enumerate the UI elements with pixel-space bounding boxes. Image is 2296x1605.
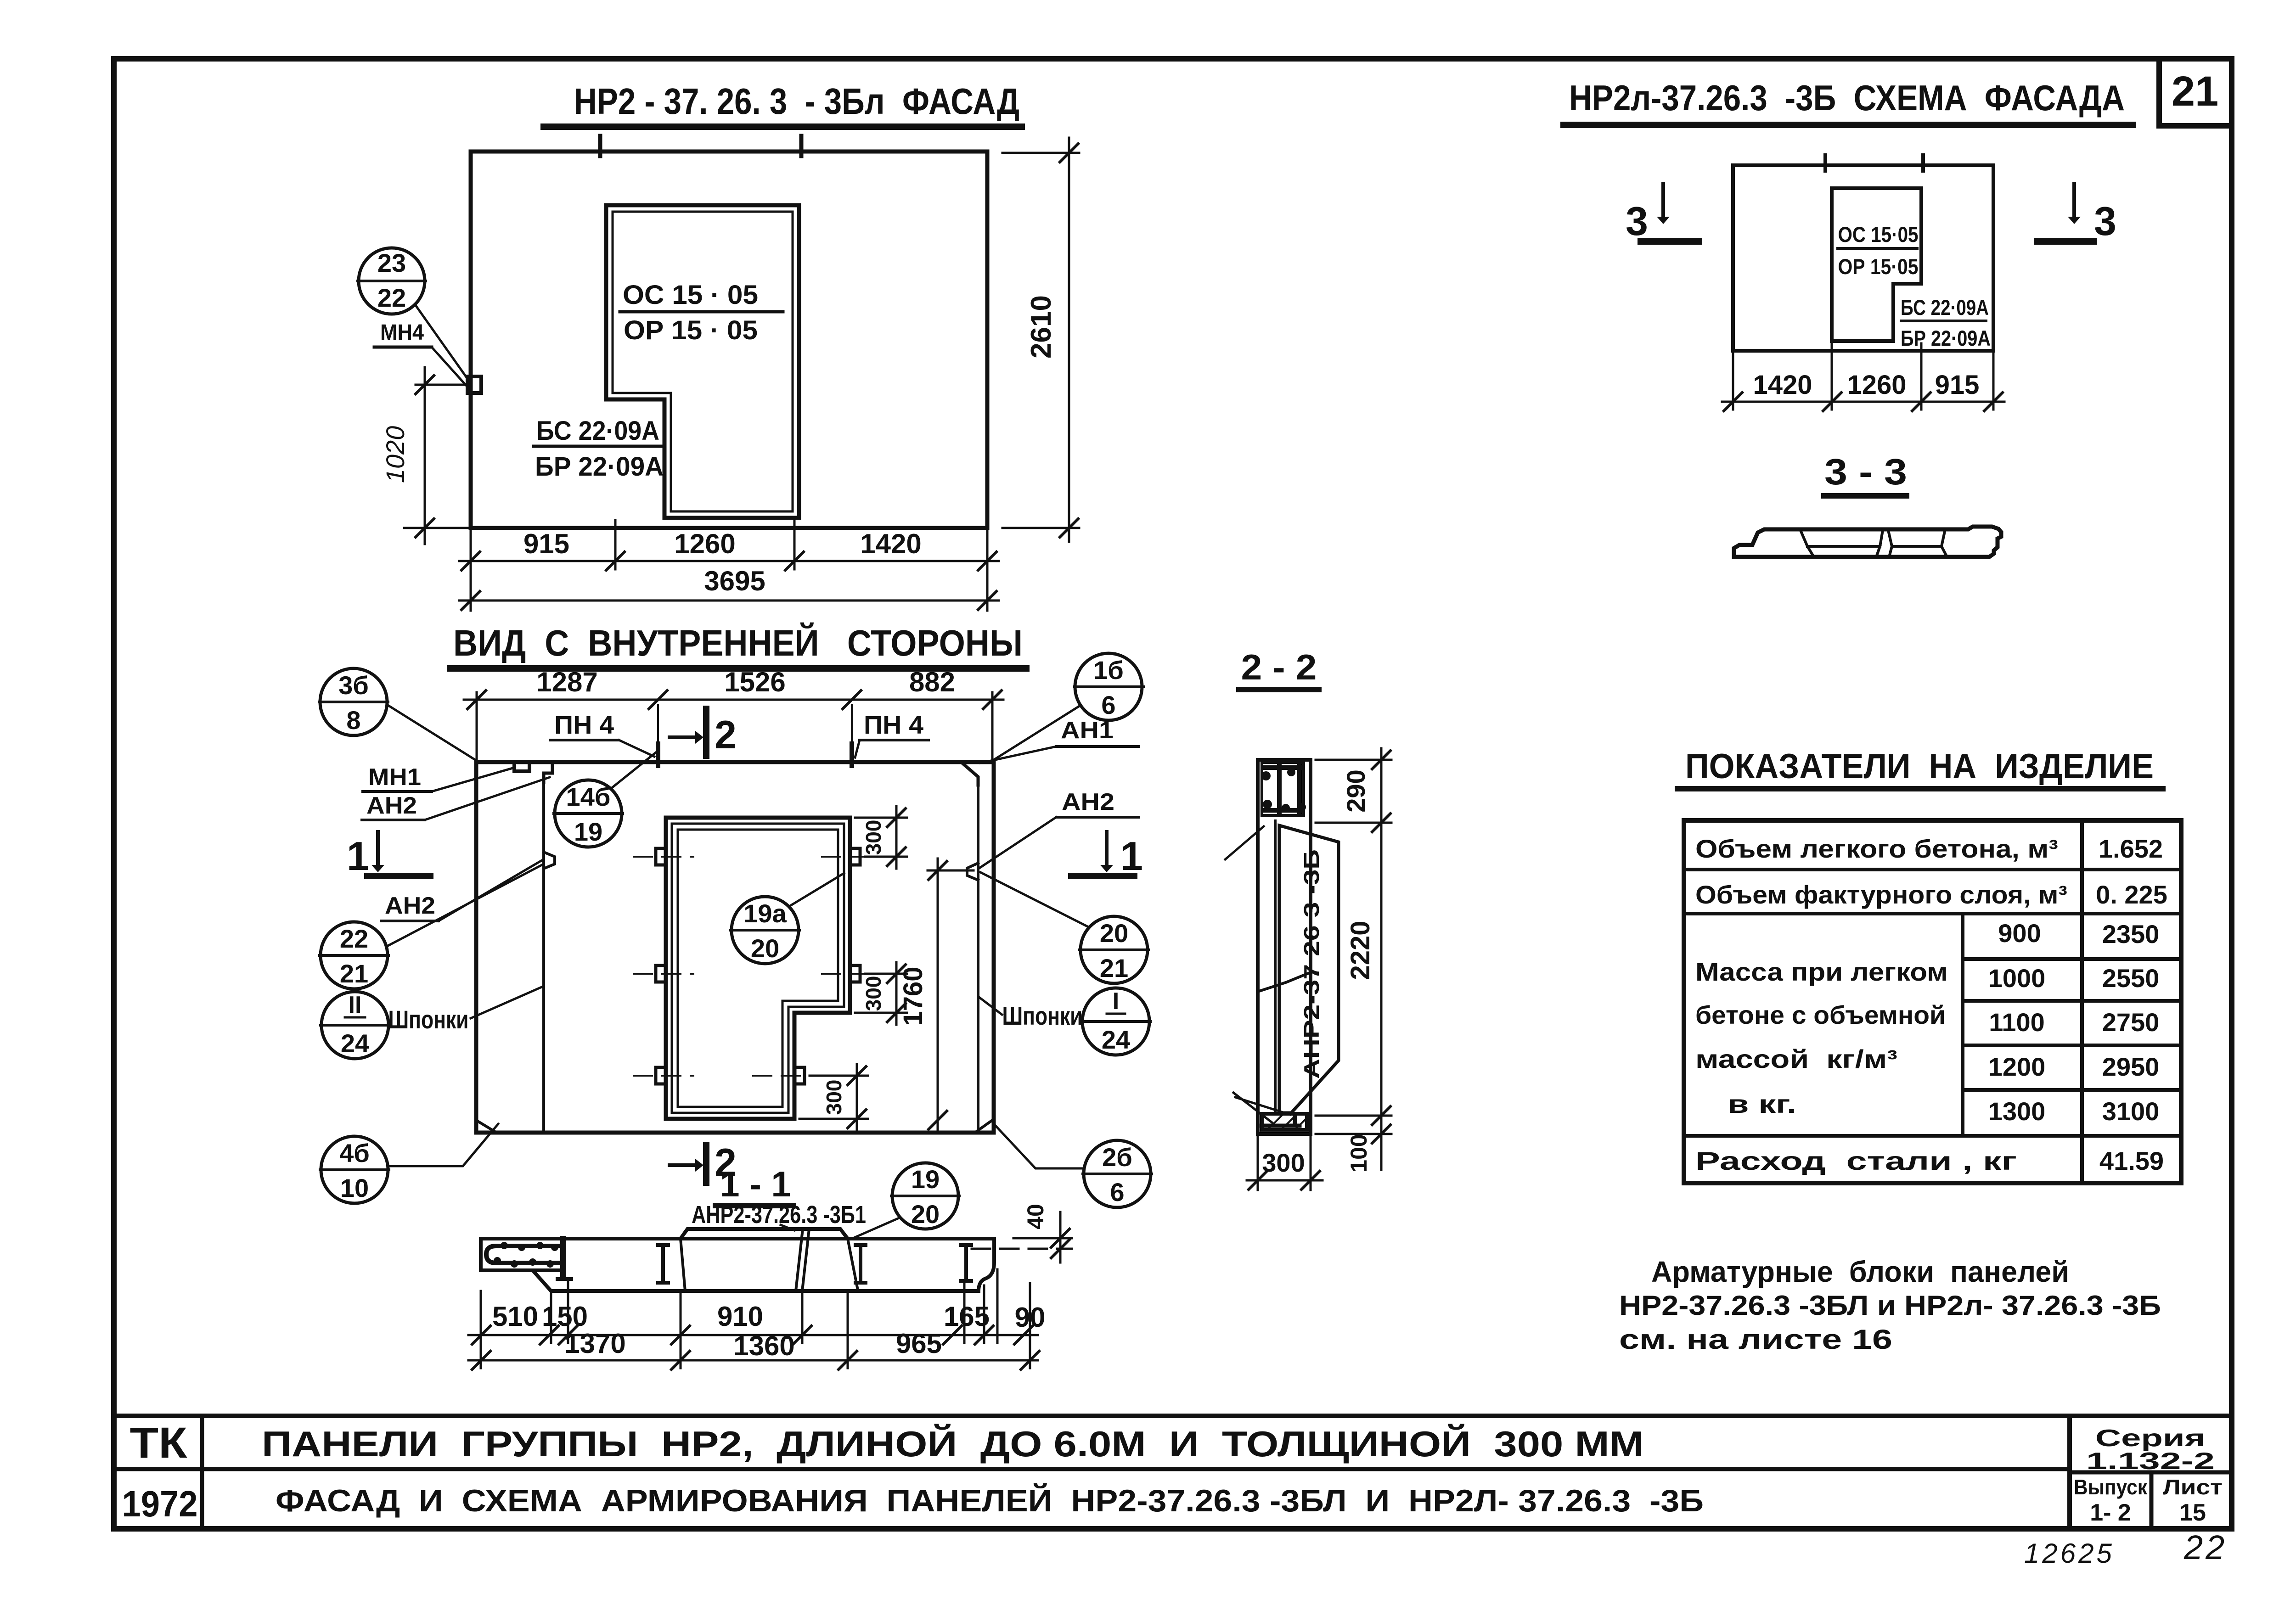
svg-text:90: 90 [1015, 1302, 1046, 1333]
section mark 2 bottom [670, 1141, 737, 1185]
facade panel outline [471, 152, 987, 528]
rebar blobs [1261, 768, 1306, 812]
dim 2610 tick top [1060, 144, 1078, 162]
leader 19a/20 to opening edge [789, 873, 844, 906]
strip outer outline [1258, 760, 1311, 1134]
schema fraction line BS/BR [1901, 320, 1986, 322]
svg-text:АНР2-37 26 3 -3Б: АНР2-37 26 3 -3Б [1300, 849, 1323, 1079]
3-3 profile key slants [1800, 529, 1947, 557]
dim 300 bottom line [856, 1064, 858, 1130]
svg-text:I: I [1113, 988, 1119, 1015]
dim 300 top ticks [887, 808, 906, 866]
svg-text:3: 3 [1626, 198, 1648, 244]
svg-text:Шпонки: Шпонки [1002, 1001, 1083, 1030]
svg-text:3 - 3: 3 - 3 [1824, 451, 1907, 492]
svg-text:ПН 4: ПН 4 [554, 710, 614, 739]
I-connector 4 [961, 1245, 971, 1281]
svg-text:0. 225: 0. 225 [2096, 880, 2167, 909]
svg-text:6: 6 [1101, 690, 1115, 719]
loop top bar [1264, 765, 1302, 770]
bottom dim extensions [1258, 1136, 1311, 1190]
svg-text:2 - 2: 2 - 2 [1241, 647, 1317, 687]
fraction line OS/OP [620, 310, 783, 314]
leader 2b/6 to bottom-right bevel [996, 1126, 1084, 1168]
svg-text:900: 900 [1998, 919, 2041, 948]
panel outline [476, 762, 994, 1133]
svg-text:19а: 19а [743, 899, 787, 928]
dashed centerline top [634, 856, 872, 858]
left end rib box [481, 1239, 564, 1270]
callout circle 1b/6 [1075, 653, 1143, 720]
opening tab right top [850, 848, 860, 865]
svg-text:АН2: АН2 [366, 792, 417, 819]
dashed centerline bottom [634, 1075, 827, 1077]
dim 2610 line [1068, 138, 1070, 542]
leader 19/20 to hump [855, 1218, 900, 1237]
table title underline [1677, 786, 2163, 791]
dim 2610 extension bottom [1002, 527, 1079, 529]
schema dim extensions [1733, 343, 1993, 410]
AN1 underline [1056, 745, 1139, 748]
svg-text:АН2: АН2 [1062, 789, 1114, 815]
schema opening outline [1832, 188, 1921, 341]
opening outer outline [666, 818, 850, 1119]
leader cage to 18b circle [1235, 1097, 1290, 1115]
svg-text:22: 22 [377, 283, 406, 312]
svg-text:ТК: ТК [130, 1419, 188, 1467]
right dim ticks [1372, 751, 1390, 1143]
rebar bar 1 in top box [1277, 764, 1282, 814]
I-connector 2 [658, 1245, 668, 1283]
svg-text:1260: 1260 [674, 528, 735, 559]
svg-text:БР 22·09А: БР 22·09А [1901, 326, 1991, 350]
bottom rebar angle [1262, 1116, 1300, 1126]
leader 3b/8 to panel corner [387, 705, 477, 761]
svg-text:1: 1 [347, 833, 369, 879]
svg-text:3: 3 [2094, 198, 2116, 244]
svg-text:Шпонки: Шпонки [388, 1005, 469, 1034]
svg-text:12625: 12625 [2024, 1538, 2115, 1569]
opening tab right mid [850, 965, 860, 982]
svg-text:НР2л-37.26.3 -3Б СХЕМА ФАСА: НР2л-37.26.3 -3Б СХЕМА ФАСАДА [1569, 78, 2125, 118]
svg-text:4б: 4б [339, 1139, 370, 1167]
svg-text:300: 300 [861, 976, 885, 1011]
extension at 1855 [851, 705, 853, 744]
body break line [1258, 972, 1311, 992]
vypusk/list divider [2150, 1472, 2154, 1529]
hump joint lines [796, 1229, 809, 1291]
leader shponki left to rib [471, 986, 544, 1018]
svg-text:2б: 2б [1102, 1143, 1132, 1172]
svg-text:21: 21 [340, 959, 368, 988]
3-3 profile outline [1734, 527, 2001, 557]
dim 1020 tick top [416, 376, 434, 394]
svg-text:10: 10 [340, 1173, 369, 1202]
svg-text:ОР 15·05: ОР 15·05 [1838, 254, 1919, 279]
dim 40: dashed line [1013, 1237, 1072, 1240]
leader ANR2 to hump [781, 1225, 794, 1230]
dim 300 top: extensions [855, 818, 907, 857]
svg-text:19: 19 [574, 817, 602, 846]
key notch left [544, 852, 555, 869]
svg-text:882: 882 [909, 667, 955, 697]
inside view title underline [450, 665, 1026, 672]
svg-text:6: 6 [1110, 1178, 1124, 1207]
svg-text:см. на листе 16: см. на листе 16 [1619, 1324, 1892, 1355]
table outer frame [1684, 820, 2181, 1183]
slab right end profile [979, 1239, 994, 1291]
svg-text:300: 300 [1262, 1148, 1305, 1177]
svg-text:1260: 1260 [1847, 370, 1906, 400]
svg-text:2350: 2350 [2102, 920, 2160, 948]
svg-text:100: 100 [1346, 1134, 1372, 1172]
dim 300 mid ticks [887, 965, 906, 1022]
svg-text:15: 15 [2179, 1499, 2206, 1526]
I-bar at rib box edge [560, 1239, 566, 1276]
svg-text:3100: 3100 [2102, 1097, 2160, 1126]
svg-text:БР 22·09А: БР 22·09А [535, 452, 664, 482]
dim 1760 extension top [928, 870, 974, 872]
schema fraction line OS/OP [1838, 247, 1917, 250]
callout circle 4b/10 [320, 1136, 389, 1203]
3-3 profile mid line right [1892, 545, 1941, 548]
svg-text:1.652: 1.652 [2099, 834, 2163, 863]
dim 300 bottom ticks [848, 1066, 866, 1128]
svg-text:1200: 1200 [1988, 1052, 2046, 1081]
svg-text:1420: 1420 [1753, 370, 1812, 400]
callout circle 22/21 [320, 922, 388, 989]
dashed centerline mid [634, 973, 872, 975]
PN4 right underline [860, 739, 929, 741]
top dim extension left [476, 692, 478, 762]
seriya box left edge [2067, 1416, 2072, 1529]
leader 1b/6 to panel corner [992, 706, 1080, 761]
PN4 right tick on panel edge [850, 744, 854, 766]
3-3 profile mid line left [1807, 545, 1880, 548]
svg-text:АН1: АН1 [1061, 717, 1114, 744]
section mark 2 top [670, 709, 737, 757]
svg-text:1- 2: 1- 2 [2090, 1499, 2131, 1526]
rebar bar 2 in top box [1297, 764, 1302, 814]
svg-text:2950: 2950 [2102, 1052, 2160, 1081]
dim line2 ticks [472, 1351, 1039, 1369]
section mark 1 left [347, 832, 430, 879]
left rib rebar dots [494, 1242, 558, 1268]
svg-text:ОР 15 · 05: ОР 15 · 05 [624, 315, 758, 345]
opening tab left bottom [656, 1067, 666, 1084]
extension at 1433 [657, 705, 659, 744]
dim line1 ticks [472, 1326, 1033, 1344]
svg-text:915: 915 [523, 528, 569, 559]
svg-text:массой кг/м³: массой кг/м³ [1695, 1044, 1897, 1073]
schema lifting tick right [1921, 155, 1925, 171]
slab bottom profile [481, 1239, 979, 1291]
inner rib line right [977, 785, 979, 1133]
rebar cage outline [1279, 825, 1339, 1113]
dim line1 ticks [461, 552, 996, 570]
window opening inner line [613, 212, 793, 511]
callout circle 3b/8 [319, 668, 388, 735]
svg-text:БС 22·09А: БС 22·09А [536, 416, 659, 446]
sheet number box 21 [2159, 59, 2232, 126]
PN4 right leader [855, 740, 860, 758]
callout circle 23/22 [358, 248, 426, 314]
dim 300 mid: extensions [855, 974, 907, 1013]
svg-text:20: 20 [751, 934, 779, 963]
svg-text:II: II [349, 992, 362, 1018]
svg-text:1760: 1760 [898, 966, 928, 1026]
svg-text:290: 290 [1341, 769, 1370, 812]
MN4 anchor plate on left edge [467, 376, 481, 393]
leader from MN4 to anchor [432, 347, 468, 388]
svg-text:ВИД С ВНУТРЕННЕЙ СТОРОНЫ: ВИД С ВНУТРЕННЕЙ СТОРОНЫ [453, 622, 1023, 663]
1-1 underline [715, 1203, 793, 1208]
svg-text:3695: 3695 [704, 566, 765, 596]
title block left column divider [200, 1416, 204, 1529]
MN4 underline [374, 346, 432, 349]
svg-text:40: 40 [1023, 1204, 1048, 1229]
svg-text:2750: 2750 [2102, 1008, 2160, 1037]
svg-text:915: 915 [1935, 370, 1980, 400]
title block top line [114, 1414, 2232, 1418]
svg-text:Лист: Лист [2163, 1475, 2223, 1499]
svg-text:19: 19 [911, 1165, 940, 1194]
AN2 top-left leader [425, 777, 550, 820]
opening tab left top [656, 848, 666, 865]
schema lifting tick left [1823, 155, 1827, 171]
svg-text:2610: 2610 [1025, 295, 1057, 359]
dim 300 top line [895, 806, 898, 869]
svg-text:Расход стали , кг: Расход стали , кг [1695, 1146, 2017, 1175]
dim line2 ticks [461, 591, 996, 610]
svg-text:Объем фактурного слоя, м³: Объем фактурного слоя, м³ [1695, 880, 2067, 909]
2-2 underline [1239, 687, 1319, 692]
dim 1760 ticks [929, 861, 947, 1129]
dim 1020 tick bottom [416, 519, 434, 537]
fraction line BS/BR [534, 445, 661, 448]
dim 1020 extension top [416, 384, 465, 386]
svg-text:1000: 1000 [1988, 964, 2046, 993]
bottom hatch lines [1267, 1114, 1307, 1130]
dim 290/2220/100 extensions [1316, 760, 1391, 1134]
AN2 right underline [1056, 816, 1139, 819]
svg-text:510: 510 [492, 1301, 538, 1332]
svg-text:Объем легкого бетона, м³: Объем легкого бетона, м³ [1695, 834, 2058, 863]
lifting mark tick left [598, 136, 602, 156]
svg-text:АН2: АН2 [385, 892, 435, 919]
svg-text:300: 300 [861, 820, 885, 855]
AN1 leader [980, 746, 1056, 763]
PN4 left underline [550, 739, 619, 741]
table mass sub-column divider [1961, 914, 1964, 1136]
svg-text:Масса при легком: Масса при легком [1695, 957, 1948, 986]
opening inner line 2 [678, 830, 838, 1107]
dim 40 ticks [1051, 1229, 1069, 1258]
svg-text:ОС 15 · 05: ОС 15 · 05 [623, 280, 758, 310]
svg-text:ПАНЕЛИ ГРУППЫ НР2, ДЛИНОЙ: ПАНЕЛИ ГРУППЫ НР2, ДЛИНОЙ ДО 6.0М И ТОЛЩ… [262, 1424, 1644, 1464]
AN2 right leader [980, 817, 1056, 868]
svg-text:1420: 1420 [860, 528, 921, 559]
AN2 top-left underline [362, 819, 425, 821]
table row line 2 [1684, 912, 2181, 915]
bottom dim line 2 [459, 600, 999, 602]
window opening outer outline [606, 205, 799, 518]
svg-text:20: 20 [1100, 919, 1128, 948]
I-connector 3 [855, 1245, 866, 1283]
svg-text:1972: 1972 [122, 1483, 198, 1524]
callout circle 14b/19 [554, 780, 623, 847]
bottom-right corner bevel [976, 1120, 992, 1132]
callout circle 19/20 [891, 1163, 959, 1229]
hump left side [681, 1239, 685, 1291]
svg-text:1: 1 [1120, 833, 1143, 879]
section mark 3 right [2037, 184, 2116, 244]
svg-text:ФАСАД И СХЕМА АРМИРОВАНИЯ: ФАСАД И СХЕМА АРМИРОВАНИЯ ПАНЕЛЕЙ НР2-37… [276, 1483, 1704, 1518]
section mark 1 right [1071, 832, 1143, 879]
svg-text:8: 8 [346, 706, 360, 735]
dim 2610 extension top [1002, 152, 1079, 154]
schema dim line [1722, 401, 2004, 403]
svg-text:ОС 15·05: ОС 15·05 [1838, 222, 1919, 247]
leader from circle 23/22 to anchor [416, 305, 470, 382]
opening tab step bottom [794, 1067, 805, 1084]
callout circle 20/21 [1080, 916, 1148, 983]
svg-text:22: 22 [2183, 1528, 2227, 1566]
svg-text:бетоне с объемной: бетоне с объемной [1695, 1000, 1946, 1029]
lifting mark tick right [799, 136, 804, 156]
MN1 leader [432, 768, 514, 791]
leader 16/20 to strip [1225, 826, 1264, 859]
bottom dim line 1 [459, 560, 999, 562]
svg-text:НР2-37.26.3 -3БЛ и НР2л- 37.26: НР2-37.26.3 -3БЛ и НР2л- 37.26.3 -3Б [1619, 1290, 2161, 1321]
AN2 left underline [381, 920, 439, 922]
dim 1020 line [424, 367, 426, 544]
key notch right [967, 863, 978, 880]
svg-text:1020: 1020 [381, 426, 410, 483]
slab top edge [481, 1237, 994, 1240]
svg-text:24: 24 [341, 1029, 369, 1058]
svg-text:1100: 1100 [1989, 1008, 2045, 1037]
mass sub-row lines [1963, 959, 2181, 1090]
MN1 anchor plate top-left [514, 762, 529, 771]
1-1 dim line 1 [468, 1334, 1038, 1336]
PN4 left leader [619, 740, 654, 757]
top dim ticks [467, 690, 1002, 709]
1-1 dim line 2 [468, 1359, 1038, 1362]
svg-text:965: 965 [896, 1328, 942, 1359]
bottom-left corner bevel [478, 1121, 495, 1132]
svg-text:МН4: МН4 [380, 320, 424, 345]
top box rebar loop outline [1262, 763, 1304, 815]
inner rib line left [542, 782, 545, 1133]
svg-text:21: 21 [1100, 954, 1128, 982]
leader shponki right to rib [979, 997, 1002, 1015]
AN2 left leader [439, 860, 542, 921]
facade title underline [544, 123, 1022, 130]
opening inner line 1 [672, 824, 844, 1113]
callout circle 2b/6 [1083, 1140, 1152, 1207]
svg-text:в кг.: в кг. [1728, 1089, 1796, 1118]
leader 14b/19 to PN4 tick [611, 751, 658, 789]
svg-text:41.59: 41.59 [2099, 1146, 2164, 1175]
loop bottom bar [1264, 808, 1302, 813]
top dim extension right [991, 692, 994, 762]
right dim line [1380, 748, 1383, 1170]
svg-text:НР2 - 37. 26. 3 - 3Бл ФАСАД: НР2 - 37. 26. 3 - 3Бл ФАСАД [574, 81, 1019, 122]
dim 1020 extension bottom [404, 527, 471, 529]
svg-text:1300: 1300 [1988, 1097, 2046, 1126]
dim 1760 line [937, 859, 939, 1133]
svg-text:1360: 1360 [733, 1330, 794, 1361]
body left inner line [1274, 821, 1277, 1114]
leader 18b/20 to strip bottom [1233, 1093, 1272, 1122]
bottom hatch strip [1262, 1114, 1307, 1130]
svg-text:300: 300 [822, 1080, 846, 1115]
svg-text:1526: 1526 [724, 667, 785, 697]
svg-text:1 - 1: 1 - 1 [720, 1164, 791, 1204]
dim 40 line [1059, 1212, 1062, 1263]
bottom dim extension lines [471, 520, 987, 611]
svg-text:2220: 2220 [1345, 920, 1375, 980]
opening tab left mid [656, 965, 666, 982]
svg-text:21: 21 [2172, 68, 2218, 115]
leader 4b/10 to bottom-left bevel [388, 1124, 498, 1166]
svg-text:150: 150 [542, 1301, 588, 1332]
PN4 left tick on panel edge [656, 744, 660, 766]
schema title underline [1564, 122, 2133, 128]
svg-text:20: 20 [911, 1200, 940, 1229]
top-left corner step [544, 762, 552, 782]
1-1 dim extensions [481, 1269, 1030, 1368]
svg-text:2550: 2550 [2102, 964, 2160, 993]
bottom dim ticks [1249, 1171, 1320, 1190]
schema dim ticks [1724, 393, 2003, 411]
schema panel outline [1733, 165, 1993, 351]
callout circle I/24 [1081, 988, 1150, 1055]
hump outline [681, 1229, 848, 1239]
top-right corner bevel [961, 762, 978, 785]
table row line 3 [1684, 1134, 2181, 1138]
seriya box middle line [2070, 1470, 2232, 1475]
svg-text:1287: 1287 [536, 667, 597, 697]
leader 22/21 to key notch [386, 865, 542, 947]
svg-text:ПОКАЗАТЕЛИ НА ИЗДЕЛИЕ: ПОКАЗАТЕЛИ НА ИЗДЕЛИЕ [1685, 747, 2154, 786]
svg-text:Выпуск: Выпуск [2074, 1475, 2148, 1499]
leader 20/21 to key notch right [980, 872, 1089, 927]
svg-text:1б: 1б [1093, 656, 1124, 685]
left rib rebar loop [486, 1246, 558, 1263]
MN1 underline [363, 790, 432, 793]
svg-text:ПН 4: ПН 4 [864, 710, 923, 739]
title block middle line [114, 1467, 2070, 1471]
bottom dim 300 line [1247, 1179, 1322, 1182]
callout circle II/24 [321, 992, 389, 1059]
top dim line [464, 699, 1003, 701]
svg-text:Арматурные блоки панелей: Арматурные блоки панелей [1651, 1255, 2069, 1288]
svg-text:МН1: МН1 [368, 764, 421, 791]
3-3 underline [1824, 493, 1907, 499]
svg-text:3б: 3б [338, 671, 369, 700]
section mark 3 left [1626, 184, 1699, 244]
svg-text:1.132-2: 1.132-2 [2086, 1448, 2215, 1475]
table value column divider [2080, 820, 2084, 1183]
svg-text:24: 24 [1102, 1025, 1130, 1054]
callout circle 19a/20 [731, 897, 799, 964]
svg-text:910: 910 [717, 1301, 763, 1332]
svg-text:БС 22·09А: БС 22·09А [1901, 295, 1989, 320]
svg-text:22: 22 [340, 924, 368, 953]
hump right side [848, 1239, 858, 1290]
